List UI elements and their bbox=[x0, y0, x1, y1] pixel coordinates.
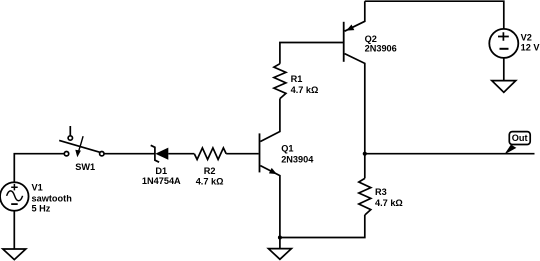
voltage source V1 bbox=[0, 182, 29, 211]
resistor R2 bbox=[194, 148, 226, 160]
node Out flag bbox=[504, 132, 530, 155]
R3 labels bbox=[375, 187, 403, 208]
voltage source V2 bbox=[489, 29, 518, 58]
wire top rail bbox=[365, 1, 504, 29]
resistor R3 bbox=[359, 178, 371, 215]
svg-text:Out: Out bbox=[512, 133, 528, 143]
wire D1 to R2 bbox=[168, 153, 194, 155]
wire R1 top to Q2 base bbox=[280, 43, 344, 64]
wire output net bbox=[365, 153, 535, 155]
switch SW1 bbox=[59, 126, 104, 157]
svg-text:12 V: 12 V bbox=[521, 43, 540, 53]
ground V2 bbox=[492, 81, 516, 93]
transistor Q1 2N3904 bbox=[260, 99, 280, 238]
R2 labels bbox=[196, 166, 224, 186]
Q2 labels bbox=[365, 34, 397, 54]
D1 labels bbox=[142, 166, 181, 186]
resistor R1 bbox=[274, 64, 286, 99]
svg-text:1N4754A: 1N4754A bbox=[142, 176, 181, 186]
wire ground stub bbox=[279, 238, 281, 249]
svg-text:V2: V2 bbox=[521, 33, 532, 43]
svg-text:SW1: SW1 bbox=[75, 162, 95, 172]
svg-text:Q2: Q2 bbox=[365, 34, 377, 44]
R1 labels bbox=[291, 74, 319, 95]
svg-text:sawtooth: sawtooth bbox=[32, 193, 73, 203]
junction dot emitter node bbox=[278, 236, 282, 240]
V2 labels bbox=[521, 33, 540, 53]
svg-text:4.7 kΩ: 4.7 kΩ bbox=[291, 85, 319, 95]
junction dot output node bbox=[363, 152, 367, 156]
transistor Q2 2N3906 bbox=[344, 1, 365, 178]
svg-text:4.7 kΩ: 4.7 kΩ bbox=[375, 198, 403, 208]
Q1 labels bbox=[281, 144, 314, 165]
svg-text:R3: R3 bbox=[375, 187, 387, 197]
svg-text:4.7 kΩ: 4.7 kΩ bbox=[196, 176, 224, 186]
svg-text:R1: R1 bbox=[291, 74, 303, 84]
svg-text:R2: R2 bbox=[204, 166, 216, 176]
V1 labels bbox=[32, 182, 73, 213]
wire R2 to Q1 base bbox=[226, 153, 258, 155]
ground Q1 emitter bbox=[268, 249, 291, 260]
svg-text:Q1: Q1 bbox=[281, 144, 293, 154]
wire V1 bottom lead bbox=[13, 211, 15, 249]
wire V2 bottom lead bbox=[503, 58, 505, 81]
svg-text:2N3904: 2N3904 bbox=[281, 155, 314, 165]
wire SW1 to D1 bbox=[104, 153, 155, 155]
svg-text:D1: D1 bbox=[155, 166, 167, 176]
wire R3 bottom to Q1 emitter node bbox=[280, 215, 365, 238]
zener diode D1 1N4754A bbox=[151, 145, 169, 162]
wire V1 top lead to SW1 bbox=[14, 154, 64, 183]
svg-text:V1: V1 bbox=[32, 182, 43, 192]
svg-text:2N3906: 2N3906 bbox=[365, 43, 397, 53]
ground V1 bbox=[3, 249, 26, 260]
svg-text:5 Hz: 5 Hz bbox=[32, 204, 51, 214]
